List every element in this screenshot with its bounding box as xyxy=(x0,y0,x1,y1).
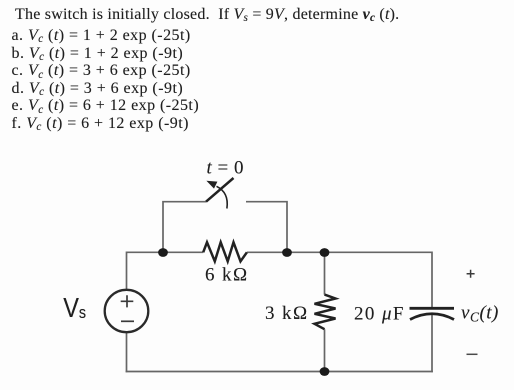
svg-text:6 kΩ: 6 kΩ xyxy=(205,265,248,286)
wire top rail left xyxy=(127,251,204,253)
node C junction dot 3k top xyxy=(320,248,330,257)
node D junction dot bottom xyxy=(320,367,330,376)
wire switch bypass left xyxy=(163,202,206,252)
answer options xyxy=(12,27,200,133)
wire top rail right xyxy=(247,251,432,253)
label 20 uF xyxy=(354,304,405,325)
label 6 kOhm xyxy=(205,265,248,286)
wire left branch xyxy=(126,252,128,373)
wire switch bypass right xyxy=(246,202,287,252)
svg-text:20 μF: 20 μF xyxy=(354,304,405,325)
label minus capacitor xyxy=(467,353,478,355)
switch opening arrow xyxy=(206,181,227,209)
node A junction dot left xyxy=(158,248,168,257)
label 3 kOhm xyxy=(265,303,308,324)
resistor R1 6k zigzag xyxy=(203,242,247,261)
voltage source VS circle xyxy=(105,290,149,332)
question text xyxy=(15,6,399,23)
wire 3k branch xyxy=(324,252,326,373)
svg-text:vC(t): vC(t) xyxy=(461,303,499,325)
label Vs xyxy=(63,293,86,323)
voltage source plus sign xyxy=(121,295,134,307)
voltage source minus sign xyxy=(121,320,134,322)
wire right branch xyxy=(431,252,433,373)
svg-text:3 kΩ: 3 kΩ xyxy=(265,303,308,324)
label vC(t) xyxy=(461,303,499,325)
label plus capacitor xyxy=(467,270,475,278)
capacitor C1 bottom curved plate xyxy=(410,314,454,320)
resistor R2 3k zigzag xyxy=(315,295,336,330)
switch SW blade xyxy=(206,178,234,202)
svg-text:Vs: Vs xyxy=(63,293,86,323)
node B junction dot mid xyxy=(282,248,292,257)
label t = 0 xyxy=(207,158,245,179)
svg-text:t = 0: t = 0 xyxy=(207,158,245,179)
wire bottom rail xyxy=(126,371,433,373)
capacitor C1 top plate xyxy=(410,307,455,310)
